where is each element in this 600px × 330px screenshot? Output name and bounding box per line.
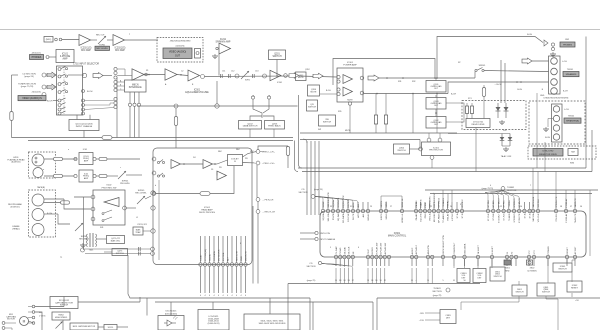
wire mic: [62, 39, 79, 41]
wire to headphones: [437, 37, 543, 79]
connector on video out: [195, 49, 201, 59]
box Q805 Q806 switch: [537, 283, 555, 296]
svg-text:SWITCH: SWITCH: [323, 121, 332, 123]
svg-text:20: 20: [450, 206, 452, 208]
svg-text:F RELAY: F RELAY: [565, 198, 568, 207]
selector contact column 2: [82, 90, 85, 93]
svg-text:4.5TLM: 4.5TLM: [452, 213, 454, 221]
node rec l-ch: [256, 150, 260, 154]
svg-text:ST-DIN: ST-DIN: [493, 213, 495, 221]
svg-text:RELAY: RELAY: [447, 213, 450, 221]
volume resistors: [251, 96, 254, 99]
svg-text:TUNER: TUNER: [433, 288, 441, 290]
svg-text:MIC AMP: MIC AMP: [81, 49, 91, 52]
svg-text:SE-DAI: SE-DAI: [343, 247, 346, 255]
wire overload loop: [446, 103, 464, 122]
svg-text:SIRCS: SIRCS: [381, 200, 383, 207]
left supply box top: [313, 301, 373, 303]
svg-text:o: o: [129, 34, 130, 36]
frame edge pins: [151, 191, 155, 195]
svg-text:SIRCS: SIRCS: [381, 213, 383, 220]
svg-text:VAC-DATA: VAC-DATA: [532, 196, 535, 207]
pb eq amp row 1: [74, 157, 77, 160]
wire amp out: [379, 77, 475, 79]
svg-text:5: 5: [330, 247, 331, 249]
bus eq bottom: [137, 105, 298, 107]
box Q101 Q102 input change: [69, 120, 99, 131]
svg-text:AMP: AMP: [63, 57, 68, 60]
svg-text:SE-CLK: SE-CLK: [349, 246, 351, 254]
ic IC301 protector: [422, 142, 451, 156]
svg-text:GP-PASS: GP-PASS: [438, 197, 441, 207]
bus corner from eq: [299, 95, 303, 168]
svg-text:L-CH: L-CH: [562, 61, 567, 63]
svg-text:IC501: IC501: [277, 82, 282, 84]
svg-text:DO CLOCK: DO CLOCK: [219, 249, 221, 261]
resistor pair relay: [466, 103, 468, 106]
box phones label: [560, 42, 575, 47]
svg-text:MIX DIM/REST: MIX DIM/REST: [434, 192, 436, 208]
svg-text:b: b: [155, 185, 156, 187]
svg-text:POWER AMP: POWER AMP: [343, 63, 357, 66]
svg-text:P-DAG: P-DAG: [339, 247, 342, 254]
svg-text:SWITCH: SWITCH: [494, 276, 502, 278]
wires motor: [29, 321, 34, 323]
resistor risers: [375, 94, 377, 116]
svg-text:R1: R1: [146, 70, 148, 72]
wire risers to top right: [589, 190, 591, 256]
connector IC601 top pins: [321, 209, 324, 212]
svg-text:B-PLAY-SW: B-PLAY-SW: [380, 242, 383, 255]
selector feed vertical: [116, 78, 118, 138]
svg-text:SENS: SENS: [386, 201, 388, 207]
op-amp deck 2: [203, 160, 212, 169]
svg-text:(page 78): (page 78): [433, 295, 442, 297]
svg-text:SPEAKERS(B): SPEAKERS(B): [566, 119, 579, 122]
svg-text:SWITCH: SWITCH: [558, 268, 567, 270]
rec lch wire up: [260, 151, 264, 153]
svg-text:S-DAT: S-DAT: [200, 254, 203, 261]
svg-text:41: 41: [420, 204, 422, 206]
bus bottom left: [128, 255, 310, 298]
svg-text:PROTECTOR: PROTECTOR: [429, 150, 443, 152]
deck lower input: [152, 171, 156, 175]
wire mute risers: [536, 93, 538, 168]
svg-text:4: 4: [240, 295, 241, 297]
svg-text:TA-MUTE: TA-MUTE: [574, 213, 577, 223]
op-amp eq stage 1: [132, 69, 144, 81]
pot high speed: [56, 322, 63, 329]
vertical feed wires: [500, 60, 502, 103]
box CN802 vol det 2: [473, 269, 486, 283]
wire eq chain: [205, 75, 298, 78]
svg-text:4: 4: [490, 185, 491, 187]
bus 2: [28, 140, 293, 142]
svg-text:3: 3: [460, 204, 461, 206]
svg-text:GP-PASS: GP-PASS: [438, 213, 441, 223]
svg-text:31: 31: [350, 206, 352, 208]
svg-text:4: 4: [209, 295, 210, 297]
pot volume: [241, 71, 249, 79]
feedback wire: [153, 192, 155, 194]
connector IC501 bottom pins: [199, 263, 202, 266]
svg-text:MS/MOTOR DRIVE: MS/MOTOR DRIVE: [539, 154, 557, 156]
svg-text:AMP: AMP: [84, 159, 89, 162]
svg-text:AC DET: AC DET: [574, 246, 577, 255]
wire k-long risers mid: [442, 172, 444, 211]
svg-text:LM MUTE: LM MUTE: [246, 251, 248, 261]
svg-text:SW141: SW141: [479, 65, 487, 67]
svg-text:SQ-DAI: SQ-DAI: [337, 213, 340, 221]
ic M6CN interface box: [125, 80, 147, 92]
svg-text:INPUT CHANGE: INPUT CHANGE: [320, 238, 336, 241]
dashed head enclosure B: [29, 190, 56, 237]
svg-text:32.768kHz: 32.768kHz: [527, 271, 537, 273]
lower amp out: [364, 93, 448, 95]
svg-text:PHONES: PHONES: [32, 57, 42, 59]
svg-text:4: 4: [227, 295, 228, 297]
pot overall rec bias: [75, 223, 83, 231]
op-amp deck 1: [171, 160, 180, 169]
svg-text:SEL-DA: SEL-DA: [327, 213, 330, 221]
box sub osc: [112, 249, 128, 256]
dashed box J902/J904 monitor out: [157, 38, 203, 63]
volume merge wires: [253, 107, 262, 118]
wire: [63, 297, 65, 307]
svg-text:PA-AM: PA-AM: [415, 201, 418, 208]
svg-text:R-PLAY-SW: R-PLAY-SW: [375, 242, 378, 255]
svg-text:SWITCH: SWITCH: [542, 291, 550, 293]
svg-text:10: 10: [520, 206, 522, 208]
page separator line: [0, 29, 600, 31]
svg-text:ST-DOUT: ST-DOUT: [498, 213, 500, 223]
svg-text:−15V: −15V: [419, 320, 425, 322]
head B lower: [32, 209, 44, 221]
svg-text:(page 76): (page 76): [307, 280, 316, 282]
riser mid: [412, 94, 414, 134]
svg-text:(page 26): (page 26): [24, 76, 34, 78]
box D801 D802 switch: [490, 267, 505, 281]
connector IC601 bottom pins: [334, 255, 337, 258]
interface left pins: [117, 81, 124, 83]
svg-text:22: 22: [430, 206, 432, 208]
diodes D35x: [501, 134, 503, 147]
svg-text:ST /CS: ST /CS: [504, 200, 506, 208]
svg-text:DATA SWITCH: DATA SWITCH: [243, 125, 258, 128]
bus long 1: [298, 167, 586, 169]
svg-text:B-CH: B-CH: [545, 137, 550, 139]
svg-text:PROT/REC SW: PROT/REC SW: [102, 188, 117, 190]
svg-text:K202: K202: [107, 185, 113, 187]
svg-text:T1: T1: [60, 257, 62, 259]
svg-text:(HEAD): (HEAD): [12, 227, 19, 230]
svg-text:+5V: +5V: [575, 300, 579, 302]
svg-text:(A DECK): (A DECK): [11, 161, 20, 164]
svg-text:→ REC R-CH: → REC R-CH: [262, 212, 275, 214]
svg-text:ST DIN: ST DIN: [493, 200, 495, 208]
svg-text:REC: REC: [236, 149, 241, 151]
svg-text:SQ-DA: SQ-DA: [322, 213, 325, 220]
svg-text:4: 4: [236, 295, 237, 297]
svg-text:COM/DOUT: COM/DOUT: [454, 242, 456, 255]
svg-text:R31: R31: [398, 81, 401, 83]
wire from amp down: [218, 54, 220, 76]
svg-text:B-SHIFT: B-SHIFT: [492, 245, 494, 254]
svg-text:L1: L1: [136, 217, 138, 219]
svg-text:J902/J904/J930/J990: J902/J904/J930/J990: [170, 41, 192, 43]
svg-text:→REC L-CH→: →REC L-CH→: [262, 152, 276, 154]
node junction: [82, 73, 86, 77]
svg-text:B651 CAPSTAN MOTOR: B651 CAPSTAN MOTOR: [73, 325, 96, 328]
svg-text:D35: D35: [503, 130, 506, 132]
op-amp deck feedback: [217, 171, 226, 180]
svg-text:SWITCH: SWITCH: [116, 253, 124, 255]
box B651 capstan motor: [70, 323, 98, 330]
svg-text:MUTE: MUTE: [298, 77, 304, 79]
rec level pot: [137, 196, 145, 204]
wires from top pins down-right bus: [442, 190, 444, 202]
svg-text:Q352: Q352: [305, 69, 310, 71]
power amp stage L: [337, 75, 340, 78]
wires right bottom verticals: [453, 266, 455, 268]
svg-text:REC BIAS: REC BIAS: [79, 237, 89, 240]
svg-text:MUTE: MUTE: [353, 213, 355, 220]
svg-text:D1: D1: [211, 169, 213, 171]
dashed head enclosure A: [29, 152, 56, 178]
box D741 D742 relay drive: [466, 119, 490, 128]
dolby box: [228, 155, 243, 166]
selector contact column 1: [58, 68, 61, 71]
speaker jack TM101: [549, 56, 561, 94]
wire protector down: [431, 159, 433, 168]
svg-text:VAC-DA: VAC-DA: [532, 213, 535, 222]
svg-text:B-CH: B-CH: [527, 34, 532, 36]
svg-text:4.5TL M: 4.5TL M: [462, 199, 464, 207]
svg-text:S1151: S1151: [108, 327, 115, 329]
op-amp eq stage 2: [165, 69, 177, 81]
svg-text:MUTE: MUTE: [345, 130, 351, 132]
svg-text:58: 58: [560, 206, 562, 208]
svg-text:MIX-DIM: MIX-DIM: [434, 213, 436, 222]
mute box Q352: [296, 72, 307, 81]
svg-text:MUTE: MUTE: [311, 91, 318, 93]
diode pair: [497, 103, 499, 118]
svg-text:EQ D-LOCK: EQ D-LOCK: [343, 195, 345, 208]
box S151 S152 capstan motor switch: [50, 297, 78, 309]
wire relay out: [475, 128, 477, 172]
box mute: [568, 149, 578, 156]
svg-text:(page 76): (page 76): [314, 189, 323, 191]
svg-text:D781, D782: D781, D782: [543, 151, 555, 153]
svg-text:SWITCH: SWITCH: [397, 150, 406, 152]
vertical eq stage3 to bus: [216, 81, 218, 104]
node input change: [315, 237, 318, 240]
svg-text:A-PLAY-2: A-PLAY-2: [415, 244, 418, 254]
switch dashes inside: [104, 210, 112, 213]
box Q781 Q782 mute motor drive: [533, 149, 563, 157]
svg-text:VIDEO (AUDIO) IN: VIDEO (AUDIO) IN: [22, 97, 42, 100]
hooks cd bottom: [322, 264, 336, 267]
bias wires to frame: [85, 248, 151, 250]
ic IC601 main control frame: [320, 211, 586, 257]
capacitor: [220, 74, 222, 78]
wire mid connect: [419, 140, 421, 150]
bus risers right: [585, 37, 587, 169]
svg-text:7: 7: [530, 185, 531, 187]
box Q354 mute: [308, 85, 320, 96]
svg-text:29: 29: [370, 206, 372, 208]
selector dashed link: [63, 67, 65, 115]
svg-text:TAPE(B): TAPE(B): [37, 186, 45, 189]
svg-text:SPEAKERS: SPEAKERS: [566, 73, 577, 76]
svg-text:VIDEO (AUDIO): VIDEO (AUDIO): [169, 51, 186, 54]
motor terminals: [32, 305, 35, 308]
head A lower: [33, 168, 43, 178]
selector contact column lower: [58, 99, 61, 102]
svg-text:GO-DATA: GO-DATA: [342, 213, 345, 223]
transformer T601: [89, 233, 91, 247]
svg-text:ST-B: ST-B: [530, 213, 532, 218]
arrow out to power amp: [289, 73, 299, 79]
pot SVR6 MIC LEVEL: [98, 36, 106, 44]
svg-text:MUTE: MUTE: [347, 100, 353, 102]
box LCD display: [198, 310, 229, 330]
arrow speaker: [522, 58, 532, 64]
svg-text:A-PLAY-SW: A-PLAY-SW: [384, 242, 387, 255]
wires selector to node: [46, 74, 57, 76]
connector column eq input: [114, 67, 117, 70]
svg-text:DECK PROCES: DECK PROCES: [199, 212, 215, 214]
mic jack J203: [44, 37, 53, 43]
switch: [157, 161, 159, 163]
svg-text:T601: T601: [89, 250, 95, 252]
wires cd section risers: [306, 141, 308, 215]
svg-text:V/G-CLK: V/G-CLK: [538, 213, 540, 222]
svg-text:27: 27: [390, 206, 392, 208]
svg-text:C12: C12: [231, 71, 234, 73]
svg-text:GO-DATA: GO-DATA: [213, 251, 216, 261]
svg-text:AWD-PW: AWD-PW: [427, 244, 430, 254]
svg-text:TM102: TM102: [568, 116, 575, 118]
svg-text:CD: CD: [309, 263, 313, 265]
headphone jack J302: [544, 40, 548, 46]
svg-text:DECK SELECT-PW: DECK SELECT-PW: [443, 234, 445, 254]
bus mid right: [300, 132, 457, 134]
svg-text:57: 57: [570, 206, 572, 208]
feedback loop wire power amp: [333, 59, 435, 86]
transistor Q302 overload out: [426, 117, 446, 129]
svg-text:B-CH: B-CH: [451, 94, 456, 96]
svg-text:SECTION: SECTION: [432, 291, 442, 293]
transistor Q202 data switch: [239, 121, 262, 130]
svg-text:REC OUT: REC OUT: [96, 35, 105, 37]
svg-text:ST-MUTE: ST-MUTE: [519, 213, 521, 223]
svg-text:TA AC OFF: TA AC OFF: [501, 155, 512, 158]
svg-text:(D606-D611): (D606-D611): [208, 323, 220, 325]
svg-text:S641-S643 S651-S653 E809: S641-S643 S651-S653 E809: [259, 323, 287, 325]
box VIDEO AUDIO IN: [18, 96, 46, 101]
arrow amp out: [368, 75, 379, 81]
svg-text:C321,L321: C321,L321: [137, 224, 148, 226]
svg-text:D617-D625: D617-D625: [166, 311, 177, 313]
jack bottom left corner: [2, 322, 5, 325]
wire riser: [139, 297, 141, 302]
svg-text:OUT: OUT: [175, 55, 181, 58]
svg-text:F-RELAY: F-RELAY: [565, 213, 568, 223]
svg-text:TM101: TM101: [567, 69, 574, 71]
node on bus: [215, 104, 219, 108]
wire vertical: [256, 165, 258, 198]
bus bottom: [288, 283, 480, 285]
svg-text:SQ-DAI: SQ-DAI: [332, 200, 335, 208]
capacitor: [252, 74, 254, 78]
svg-text:(page 78,79): (page 78,79): [482, 188, 494, 190]
svg-text:D780/D781/D782/D783/D784: D780/D781/D782/D783/D784: [544, 98, 569, 100]
svg-text:→ PB R-CH: → PB R-CH: [262, 200, 274, 202]
svg-text:A-REC: A-REC: [411, 247, 414, 254]
svg-text:ST CLK(+B): ST CLK(+B): [205, 249, 207, 261]
box SW switch: [319, 115, 336, 126]
box CN801 vol det 1: [457, 269, 470, 283]
node: [263, 74, 267, 78]
svg-text:ST-CLK: ST-CLK: [488, 213, 490, 221]
svg-text:SECTION: SECTION: [507, 190, 517, 192]
wire: [107, 39, 113, 41]
svg-text:12: 12: [500, 206, 502, 208]
svg-text:TUNED: TUNED: [509, 200, 511, 208]
wires input change: [76, 115, 78, 120]
svg-text:4: 4: [213, 295, 214, 297]
svg-text:SP/MAIN AMP: SP/MAIN AMP: [216, 41, 231, 44]
svg-text:REC LmR: REC LmR: [237, 251, 239, 261]
svg-text:MIC AMP: MIC AMP: [115, 49, 125, 52]
op-amp inside protect: [104, 198, 119, 207]
svg-text:50: 50: [463, 280, 465, 282]
box bias osc: [107, 236, 125, 244]
svg-text:3TN-MU: 3TN-MU: [556, 213, 558, 222]
svg-text:SW/Y-CON: SW/Y-CON: [320, 233, 331, 235]
svg-text:REC LEVEL: REC LEVEL: [135, 192, 147, 194]
svg-text:INTERFACE: INTERFACE: [129, 86, 142, 89]
svg-text:B-CH: B-CH: [563, 91, 568, 93]
motor M51 capstan: [20, 317, 29, 326]
svg-text:POWER: POWER: [548, 246, 550, 255]
wire mic to mix: [125, 39, 159, 41]
svg-text:RY1: RY1: [468, 98, 472, 100]
op-amp eq out: [270, 70, 281, 81]
svg-text:4: 4: [231, 295, 232, 297]
svg-text:SECTION: SECTION: [307, 266, 316, 268]
wire: [91, 39, 98, 41]
svg-text:RESET: RESET: [567, 247, 569, 255]
ic IC501 head amp frame: [153, 148, 252, 265]
svg-text:ST-B: ST-B: [462, 213, 464, 218]
svg-text:B-CH: B-CH: [87, 91, 93, 93]
svg-text:MIC LEVEL: MIC LEVEL: [97, 48, 109, 50]
svg-text:MAIN CONTROL: MAIN CONTROL: [388, 235, 407, 238]
svg-text:8: 8: [240, 243, 241, 245]
svg-text:ST CLK: ST CLK: [488, 199, 490, 207]
wire to speaker jack: [484, 71, 549, 72]
svg-text:PMS: PMS: [425, 202, 427, 207]
selector S101 frame: [57, 66, 83, 115]
svg-text:FEED BACK: FEED BACK: [268, 125, 281, 128]
svg-text:R32: R32: [412, 81, 415, 83]
svg-text:DET: DET: [446, 317, 451, 319]
wire: [103, 75, 112, 77]
svg-text:J101(1/3): J101(1/3): [31, 92, 41, 94]
svg-text:c: c: [120, 167, 121, 169]
